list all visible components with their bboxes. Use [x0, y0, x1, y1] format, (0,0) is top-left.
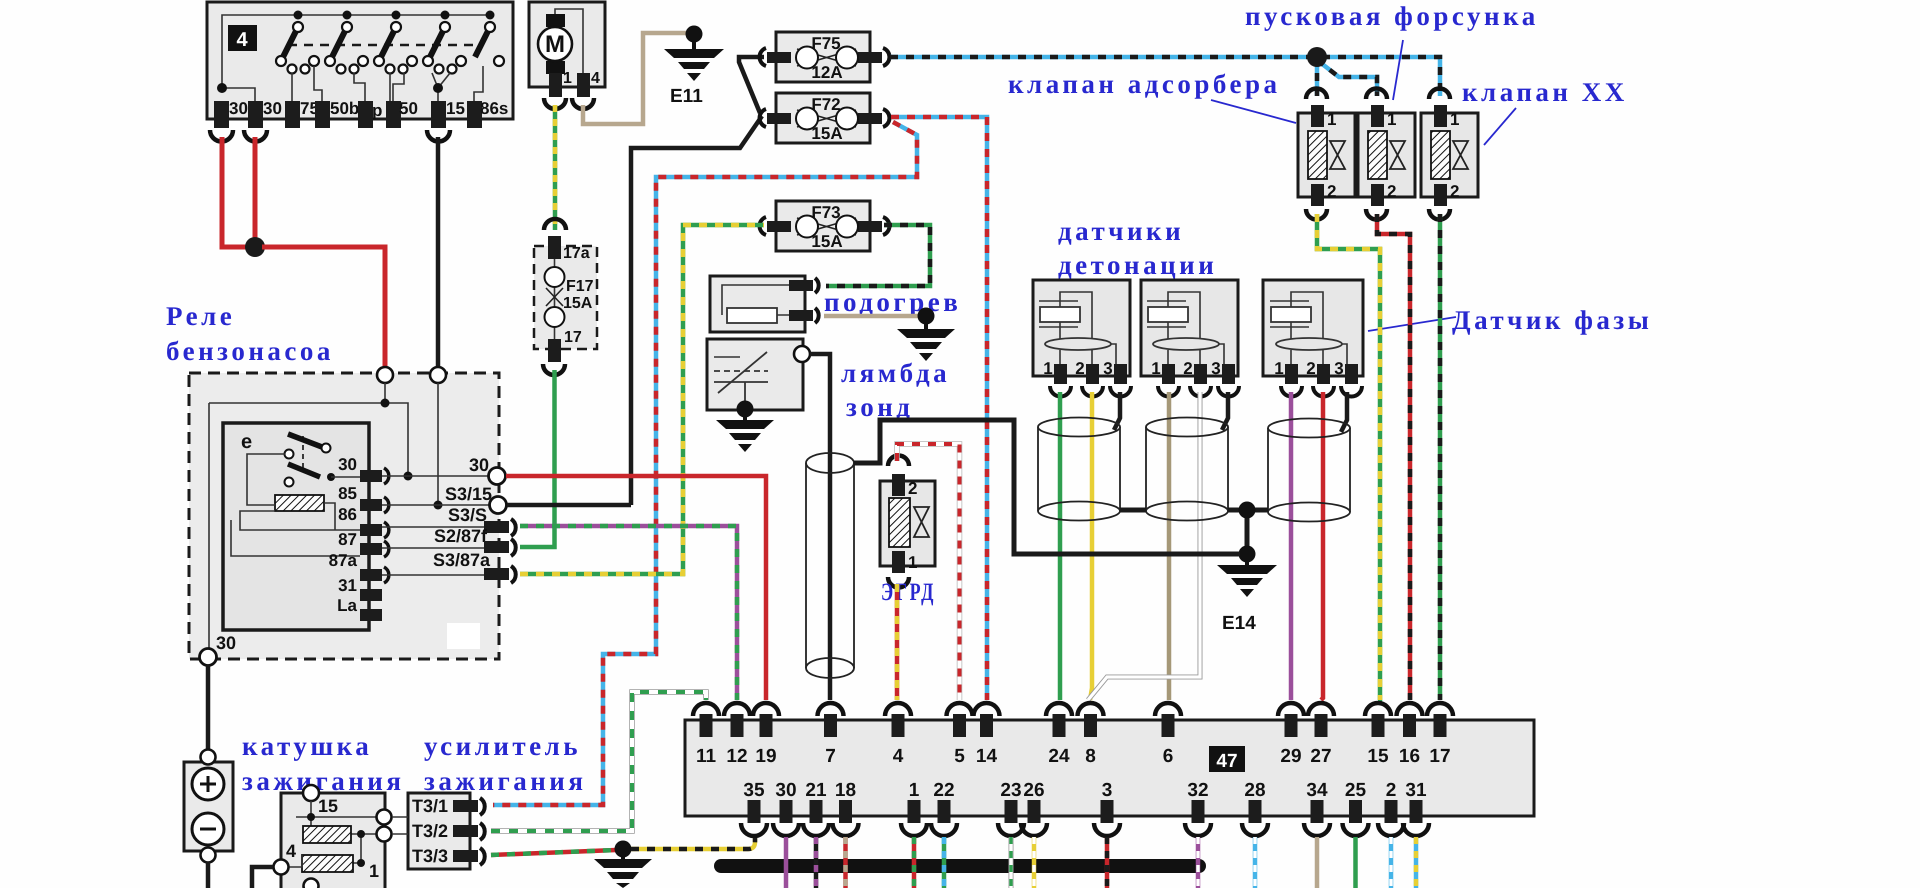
relay row lines to external terminals	[382, 476, 491, 575]
terminal 50b	[315, 99, 359, 128]
wire red/green T3/3 to ground	[491, 850, 616, 855]
svg-text:2: 2	[1327, 182, 1336, 201]
ECU pin 2	[1378, 780, 1404, 836]
terminal 15	[431, 99, 465, 128]
svg-text:31: 31	[338, 576, 357, 595]
svg-text:F75: F75	[811, 34, 840, 53]
svg-text:S3/87a: S3/87a	[433, 550, 491, 570]
svg-text:Реле: Реле	[166, 301, 235, 331]
svg-text:2: 2	[1183, 359, 1192, 378]
switch contact 3	[374, 11, 417, 74]
wire red/black injector2 to ECU pin16	[1377, 214, 1410, 700]
ECU pin 27	[1308, 703, 1334, 767]
connector arc under 30 first	[210, 130, 233, 142]
ECU pin 8	[1078, 703, 1104, 767]
svg-text:1: 1	[1274, 359, 1283, 378]
ECU pin 7	[818, 703, 844, 767]
thick black bus bar	[714, 859, 1206, 873]
switch internal junction dot left	[217, 83, 227, 93]
wire cyan/white stub pin2	[1389, 837, 1394, 888]
svg-text:3: 3	[1334, 359, 1343, 378]
ECU pin 22	[931, 780, 957, 836]
svg-text:лямбда: лямбда	[841, 358, 950, 388]
junction dot relay 30 row	[404, 472, 413, 481]
wire red/grey stub pin18	[843, 837, 848, 888]
svg-text:S2/87f: S2/87f	[434, 526, 488, 546]
ECU connector 47 box	[685, 720, 1534, 816]
phase sensor pin 1	[1274, 359, 1302, 397]
svg-text:50b: 50b	[330, 99, 359, 118]
wire green stub pin25	[1353, 837, 1358, 888]
wire yellow/green S3/87a to F73	[520, 225, 764, 574]
ECU pin 31	[1403, 780, 1429, 836]
svg-text:S3/S: S3/S	[448, 505, 487, 525]
wire yellow knock1-2 to ECU pin8	[1090, 392, 1092, 700]
svg-text:32: 32	[1187, 780, 1208, 801]
battery	[184, 750, 233, 863]
heater box подогрев	[710, 276, 819, 332]
solenoid valve XX box	[1421, 89, 1478, 220]
svg-text:31: 31	[1405, 780, 1427, 801]
svg-text:30: 30	[338, 455, 357, 474]
svg-text:2: 2	[908, 479, 917, 498]
phase sensor pin 2	[1306, 359, 1334, 397]
svg-text:28: 28	[1244, 780, 1265, 801]
wire tan stub pin34	[1315, 837, 1320, 888]
wire red battery 30 first	[222, 137, 248, 247]
svg-text:17: 17	[564, 329, 582, 346]
wire green/black F73 to heater	[826, 225, 930, 286]
wire black S3/15 feed to fuses	[631, 57, 764, 505]
wire white knock2-2 to ECU pin8	[1088, 392, 1200, 700]
junction dot relay s315 row	[434, 501, 443, 510]
svg-text:бензонасоа: бензонасоа	[166, 336, 334, 366]
svg-text:Датчик фазы: Датчик фазы	[1452, 305, 1652, 335]
ECU pin 19	[753, 703, 779, 767]
svg-text:подогрев: подогрев	[824, 287, 961, 317]
svg-text:35: 35	[743, 780, 765, 801]
svg-text:15A: 15A	[563, 295, 593, 312]
svg-text:27: 27	[1310, 746, 1331, 767]
wire black ignition 15 to relay	[436, 137, 441, 367]
pointer line start injector	[1393, 40, 1403, 100]
wire black knock1-3 to shield	[1114, 392, 1120, 430]
switch contact 5	[475, 11, 504, 67]
ECU pin 21	[803, 780, 829, 836]
svg-text:7: 7	[825, 746, 836, 767]
phase sensor box	[1263, 280, 1363, 376]
svg-text:25: 25	[1345, 780, 1367, 801]
solenoid valve adsorber box	[1298, 89, 1355, 220]
svg-text:87: 87	[338, 530, 357, 549]
svg-text:15: 15	[446, 99, 465, 118]
wire red/yellow EGRD1 to ECU pin4	[895, 584, 900, 700]
ground E11	[664, 26, 724, 108]
svg-text:19: 19	[755, 746, 776, 767]
ECU pin 35	[741, 780, 767, 836]
ground heater	[897, 308, 955, 362]
wire red phase2 to ECU pin27	[1321, 392, 1323, 700]
svg-text:4: 4	[893, 746, 904, 767]
relay external terminal S3/S	[448, 505, 516, 536]
svg-text:4: 4	[236, 29, 248, 51]
knock sensor 2 box	[1141, 280, 1238, 376]
relay inner thin feed wires	[209, 383, 438, 650]
relay pin 31	[338, 576, 382, 601]
switch internal dashed line	[288, 44, 477, 47]
wire red to fuel pump relay	[262, 247, 385, 367]
EGRD valve box	[880, 456, 935, 588]
phase sensor pin 3	[1334, 359, 1362, 397]
shield cylinder knock2	[1146, 418, 1228, 521]
amplifier pin T3/3	[412, 846, 485, 866]
relay inner box	[223, 423, 369, 630]
svg-text:15: 15	[1367, 746, 1389, 767]
svg-text:3: 3	[1103, 359, 1112, 378]
svg-text:усилитель: усилитель	[424, 731, 581, 761]
svg-text:E11: E11	[670, 86, 703, 107]
svg-text:30: 30	[229, 99, 248, 118]
svg-text:2: 2	[1386, 780, 1397, 801]
svg-text:датчики: датчики	[1058, 216, 1184, 246]
svg-text:Т3/3: Т3/3	[412, 846, 448, 866]
wire red/cyan F72 to ECU pin14	[891, 117, 987, 700]
svg-text:17a: 17a	[563, 245, 590, 262]
svg-text:30: 30	[216, 633, 236, 653]
wire red/black stub pin3	[1105, 837, 1110, 888]
wire red relay30 to ECU pin19	[506, 476, 766, 700]
svg-text:2: 2	[1075, 359, 1084, 378]
wire tan motor4 to E11	[583, 33, 688, 124]
wire red/green stub pin1	[912, 837, 917, 888]
svg-text:1: 1	[908, 553, 917, 572]
knock sensor 1 pin 1	[1043, 359, 1071, 397]
wire black shield bus	[1120, 510, 1268, 554]
ECU pin 30	[773, 780, 799, 836]
junction dot E14	[1239, 546, 1256, 563]
wire black/purple stub pin21	[814, 837, 819, 888]
terminal 50	[386, 99, 418, 128]
relay top connector from black wire	[430, 367, 446, 383]
svg-text:87a: 87a	[329, 551, 358, 570]
fuse F73 15A	[760, 201, 890, 251]
wire purple/white stub pin32	[1196, 837, 1201, 888]
relay pin 87	[338, 530, 389, 557]
ECU pin 25	[1343, 780, 1369, 836]
ECU pin 17	[1427, 703, 1453, 767]
connector arc under motor pin4	[572, 98, 594, 109]
svg-text:Т3/1: Т3/1	[412, 796, 448, 816]
amplifier pin T3/2	[412, 821, 485, 841]
wire green F17 to relay S2/87f	[520, 370, 555, 547]
svg-text:50: 50	[399, 99, 418, 118]
terminal 75	[285, 99, 319, 128]
relay pin 30	[338, 455, 389, 484]
ground E14	[1217, 560, 1277, 634]
relay external terminal S3/87a	[433, 550, 516, 583]
wire green/white T3/2 to ECU pin11	[491, 692, 706, 831]
ignition coil box	[274, 785, 392, 888]
shield cylinder phase	[1268, 419, 1350, 522]
svg-text:E14: E14	[1222, 613, 1256, 634]
svg-text:3: 3	[1211, 359, 1220, 378]
relay inner links	[231, 454, 360, 556]
wire tan heater to ground	[824, 314, 920, 319]
knock sensor 1 box	[1033, 280, 1130, 376]
wire black lambda to ECU pin7	[810, 354, 830, 700]
ECU pin 26	[1021, 780, 1047, 836]
wire purple phase1 to ECU pin29	[1289, 392, 1294, 700]
svg-text:15A: 15A	[811, 232, 842, 251]
svg-text:21: 21	[805, 780, 827, 801]
ECU pin 11	[693, 703, 719, 767]
wire black S3/15 out	[507, 503, 631, 508]
svg-text:1: 1	[1327, 110, 1336, 129]
knock sensor 2 pin 2	[1183, 359, 1211, 397]
fuse F17 15A dashed box	[534, 219, 597, 375]
svg-text:F72: F72	[811, 95, 840, 114]
wire purple stub pin30	[784, 837, 789, 888]
relay pin La	[337, 596, 382, 621]
svg-text:p: p	[372, 101, 382, 120]
motor pin 1	[549, 70, 572, 97]
svg-text:1: 1	[1043, 359, 1052, 378]
switch contact 2	[325, 11, 368, 74]
svg-text:47: 47	[1216, 751, 1237, 772]
wire black knock2-3 to shield	[1222, 392, 1228, 430]
svg-text:2: 2	[1450, 182, 1459, 201]
fuel pump relay dashed box	[189, 373, 499, 659]
svg-text:клапан XX: клапан XX	[1462, 77, 1628, 107]
ECU pin 18	[833, 780, 859, 836]
wire cyan/yellow stub pin31	[1414, 837, 1419, 888]
shield cylinder lambda wire	[806, 453, 854, 678]
switch internal junction dot term15	[433, 83, 443, 93]
svg-text:26: 26	[1023, 780, 1044, 801]
pointer line phase sensor	[1368, 317, 1456, 331]
svg-text:85: 85	[338, 484, 357, 503]
relay top connector from red wire	[377, 367, 393, 383]
relay bottom terminal 30	[200, 633, 237, 666]
ECU pin 14	[974, 703, 1000, 767]
wire cyan/white stub pin28	[1253, 837, 1258, 888]
svg-text:La: La	[337, 596, 357, 615]
wire magenta/green S3/S to ECU pin12	[520, 526, 737, 700]
wire green/yellow motor1 to F17	[553, 105, 558, 230]
solenoid valve start injector box	[1358, 89, 1415, 220]
svg-text:4: 4	[286, 841, 296, 861]
wire green/black valveXX2 to ECU pin17	[1438, 214, 1443, 700]
shield cylinder knock1	[1038, 418, 1120, 521]
svg-text:14: 14	[976, 746, 998, 767]
svg-text:2: 2	[1306, 359, 1315, 378]
knock sensor 2 pin 3	[1211, 359, 1239, 397]
svg-text:18: 18	[835, 780, 856, 801]
knock sensor 2 pin 1	[1151, 359, 1179, 397]
svg-text:e: e	[241, 431, 252, 453]
relay coil	[275, 495, 324, 511]
terminal 86s	[467, 99, 508, 128]
pointer line adsorber	[1211, 100, 1296, 123]
svg-text:15A: 15A	[811, 124, 842, 143]
ECU pin 28	[1242, 780, 1268, 836]
junction dot red	[245, 237, 265, 257]
svg-text:F17: F17	[566, 278, 594, 295]
svg-text:1: 1	[909, 780, 920, 801]
svg-text:30: 30	[469, 455, 489, 475]
connector arc under 30 second	[244, 130, 267, 142]
relay external terminal S2/87f	[434, 526, 516, 556]
svg-text:1: 1	[1387, 110, 1396, 129]
wire red/cyan F72 to T3/1	[493, 122, 917, 805]
svg-text:15: 15	[318, 796, 338, 816]
ground lambda	[716, 401, 774, 453]
switch contact 1	[276, 11, 319, 74]
connector arc under 15	[427, 130, 450, 142]
junction dot relay30 top	[381, 399, 390, 408]
wire black coil terminal4 down	[252, 867, 273, 888]
ECU pin 4	[885, 703, 911, 767]
svg-text:86: 86	[338, 505, 357, 524]
connector arc under motor pin1	[544, 98, 566, 109]
wire red battery 30 second	[253, 137, 258, 247]
svg-text:Т3/2: Т3/2	[412, 821, 448, 841]
wire black phase3 to shield	[1341, 392, 1347, 432]
wire cyan/black branch to adsorber valve	[1315, 57, 1320, 96]
ECU pin 5	[947, 703, 973, 767]
svg-text:1: 1	[1151, 359, 1160, 378]
svg-text:1: 1	[369, 861, 379, 881]
relay external terminal 30	[469, 455, 506, 485]
wire black lambda shield to E14	[854, 420, 1240, 554]
svg-text:пусковая форсунка: пусковая форсунка	[1245, 1, 1539, 31]
svg-text:1: 1	[1450, 110, 1459, 129]
svg-text:детонации: детонации	[1058, 250, 1217, 280]
svg-text:1: 1	[563, 70, 572, 87]
relay switch contacts	[285, 434, 336, 487]
wire yellow/green adsorber2 to ECU pin15	[1317, 214, 1380, 700]
relay pin 86	[338, 505, 389, 538]
fuse F72 15A	[760, 93, 890, 143]
svg-text:3: 3	[1102, 780, 1113, 801]
svg-text:24: 24	[1048, 746, 1070, 767]
svg-text:34: 34	[1306, 780, 1328, 801]
svg-text:29: 29	[1280, 746, 1301, 767]
svg-text:11: 11	[696, 746, 717, 767]
switch contact 4	[423, 11, 466, 74]
ECU pin 3	[1094, 780, 1120, 836]
terminal 30 (first)	[214, 99, 248, 128]
svg-text:22: 22	[933, 780, 954, 801]
wire brown knock2-1 to ECU pin6	[1167, 392, 1172, 700]
junction dot cyan wire	[1307, 47, 1327, 67]
pointer line valve XX	[1484, 108, 1516, 145]
ECU pin 12	[724, 703, 750, 767]
svg-text:клапан адсорбера: клапан адсорбера	[1008, 69, 1281, 99]
relay pin 87a	[329, 551, 389, 583]
svg-text:ЭГРД: ЭГРД	[881, 579, 936, 606]
svg-text:M: M	[545, 31, 565, 58]
ground T3/3	[594, 841, 652, 888]
ECU pin 16	[1397, 703, 1423, 767]
fuel pump motor M box	[529, 2, 605, 87]
svg-text:катушка: катушка	[242, 731, 372, 761]
svg-text:17: 17	[1429, 746, 1450, 767]
ECU pin 15	[1365, 703, 1391, 767]
fuse F75 12A	[760, 32, 890, 82]
ECU pin 34	[1304, 780, 1330, 836]
svg-text:F73: F73	[811, 203, 840, 222]
knock sensor 1 pin 2	[1075, 359, 1103, 397]
wire red/white EGRD2 to ECU pin5	[897, 444, 960, 700]
terminal p	[358, 101, 382, 128]
switch internal bus wire	[222, 15, 490, 88]
ECU pin 1	[901, 780, 927, 836]
svg-text:8: 8	[1085, 746, 1096, 767]
motor pin 4	[577, 70, 600, 97]
ignition amplifier box	[392, 793, 470, 869]
svg-text:86s: 86s	[480, 99, 508, 118]
wire cyan/black F75 to solenoid valves	[890, 57, 1440, 96]
svg-text:5: 5	[954, 746, 965, 767]
ECU pin 24	[1046, 703, 1072, 767]
switch internal terminal links	[222, 66, 483, 101]
relay external terminal S3/15	[445, 484, 507, 514]
wire white/green stub pin23	[1009, 837, 1014, 888]
amplifier pin T3/1	[412, 796, 485, 816]
svg-text:2: 2	[1387, 182, 1396, 201]
ECU pin 6	[1155, 703, 1181, 767]
svg-text:16: 16	[1399, 746, 1420, 767]
relay pin 85	[338, 484, 389, 513]
svg-text:6: 6	[1163, 746, 1174, 767]
ECU pin 23	[998, 780, 1024, 836]
svg-text:12: 12	[726, 746, 747, 767]
junction dot shield bus	[1239, 502, 1256, 519]
wire yellow/white stub pin26	[1032, 837, 1037, 888]
svg-text:S3/15: S3/15	[445, 484, 492, 504]
svg-text:12A: 12A	[811, 63, 842, 82]
wire yellow/black ground to ECU pin35	[631, 838, 755, 849]
lambda probe box	[707, 339, 810, 410]
ignition switch block S4	[207, 2, 513, 119]
knock sensor 1 pin 3	[1103, 359, 1131, 397]
wire green knock1-1 to ECU pin24	[1058, 392, 1063, 700]
svg-text:23: 23	[1000, 780, 1021, 801]
svg-text:4: 4	[591, 70, 600, 87]
svg-text:30: 30	[263, 99, 282, 118]
svg-text:30: 30	[775, 780, 796, 801]
wire cyan/black branch to start injector	[1317, 60, 1377, 96]
wire green/cyan stub pin22	[942, 837, 947, 888]
ECU pin 29	[1278, 703, 1304, 767]
wire black relay30 to battery	[206, 665, 211, 750]
wire black battery minus down	[206, 862, 211, 888]
ECU pin 32	[1185, 780, 1211, 836]
terminal 30 (second)	[248, 99, 282, 128]
